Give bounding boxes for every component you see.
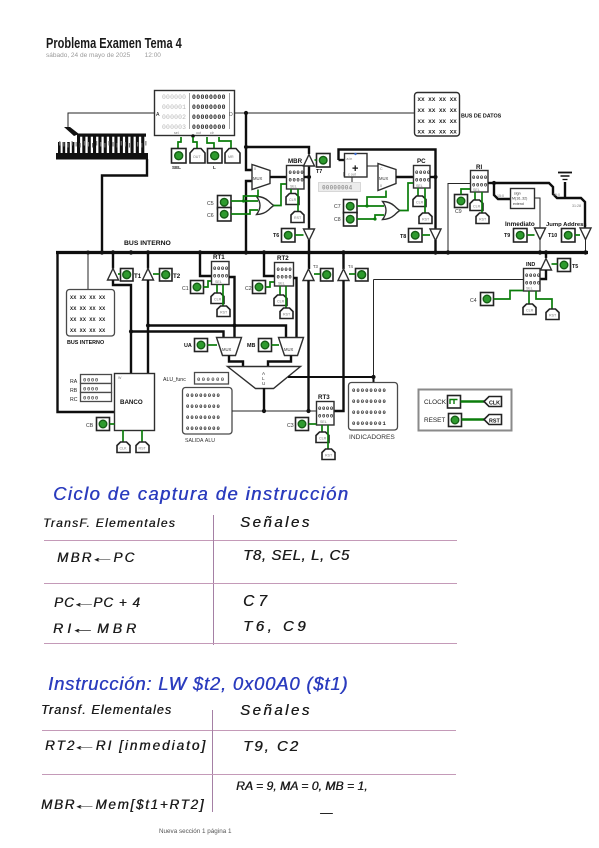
- svg-text:T8: T8: [400, 234, 406, 240]
- button UA: [184, 339, 217, 352]
- wire PC feedback top loop: [339, 150, 436, 229]
- svg-text:XX XX XX XX: XX XX XX XX: [418, 107, 458, 114]
- wire RT1 out to mux UA: [229, 277, 235, 337]
- svg-text:SEL: SEL: [416, 184, 423, 188]
- svg-text:SEL: SEL: [278, 282, 285, 286]
- table 1 divider: [213, 515, 214, 645]
- wire mux MB to alu: [268, 356, 291, 367]
- svg-text:CLR: CLR: [526, 309, 534, 313]
- wire C5 to or2: [231, 200, 258, 202]
- svg-text:C2: C2: [245, 286, 252, 292]
- date line: [46, 52, 161, 59]
- display BUS INTERNO: [67, 290, 115, 347]
- node T7 line: [244, 145, 248, 149]
- svg-text:SEL: SEL: [526, 287, 533, 291]
- svg-text:T5: T5: [572, 264, 578, 270]
- button C8: [334, 213, 357, 227]
- svg-text:BUS INTERNO: BUS INTERNO: [124, 240, 171, 247]
- svg-text:RST: RST: [220, 311, 228, 315]
- wire bus interno main: [56, 251, 588, 254]
- wire flags up to IND loop: [373, 280, 375, 378]
- node bus x=246: [244, 250, 248, 254]
- mux MB: [279, 338, 304, 356]
- svg-text:0000: 0000: [318, 413, 334, 420]
- wire splitter to bus interno: [102, 159, 147, 251]
- svg-text:0000: 0000: [472, 174, 488, 181]
- button L: [208, 149, 223, 171]
- table 1 header col2: [240, 514, 312, 531]
- svg-text:RT1: RT1: [213, 254, 225, 261]
- svg-text:0000: 0000: [415, 169, 431, 176]
- svg-text:00000001: 00000001: [352, 420, 387, 427]
- svg-text:UA: UA: [184, 343, 192, 349]
- button C6: [207, 208, 231, 222]
- pin RST of RT2: [280, 286, 293, 319]
- button T8: [400, 229, 430, 243]
- svg-text:a in: a in: [347, 157, 353, 161]
- wire cmux select: [367, 191, 386, 207]
- svg-text:RST: RST: [325, 454, 333, 458]
- wire memory data out to bus de datos: [235, 112, 414, 114]
- node T3 line end: [306, 409, 310, 413]
- pin RST of RT1: [217, 285, 230, 317]
- wire memory sel pin: [178, 137, 181, 148]
- svg-text:0: 0: [380, 184, 382, 188]
- button T2: [153, 269, 181, 282]
- svg-text:CLK: CLK: [120, 447, 128, 451]
- svg-text:000000: 000000: [162, 94, 186, 101]
- svg-text:RA: RA: [70, 379, 78, 385]
- row RT2 <- RI: [45, 738, 207, 753]
- wire memory address input: [68, 113, 154, 128]
- wire T6 to bus: [308, 240, 310, 251]
- svg-text:0000: 0000: [83, 377, 99, 384]
- svg-text:00000000: 00000000: [192, 124, 226, 131]
- button C0: [86, 418, 115, 431]
- wire bus to T1: [112, 252, 114, 269]
- pin CLR of IND: [523, 291, 536, 315]
- buffer T5: [541, 259, 552, 271]
- or gate U4 (C7/C8): [383, 202, 401, 220]
- svg-text:W: W: [118, 376, 122, 380]
- wire MBR out vertical: [308, 166, 310, 229]
- svg-text:XX XX XX XX: XX XX XX XX: [418, 129, 458, 136]
- svg-text:INDICADORES: INDICADORES: [349, 434, 395, 441]
- wire bus to T2: [147, 252, 149, 269]
- wire T2 out to banco: [147, 280, 149, 373]
- svg-text:ALU_func: ALU_func: [163, 377, 186, 383]
- splitter bus ripper: [56, 127, 148, 160]
- svg-text:CLK: CLK: [489, 401, 500, 407]
- svg-text:MUX: MUX: [379, 176, 389, 181]
- node memory data / MBR mux: [244, 111, 248, 115]
- table 2 header col2: [240, 702, 312, 719]
- wire mux UA to alu: [229, 356, 243, 367]
- wire T1 out to banco: [113, 280, 131, 373]
- svg-text:C5: C5: [207, 201, 214, 207]
- wire RI to jump concat (25:0): [494, 183, 585, 228]
- register RT2: [275, 255, 294, 286]
- handwritten section 2 title: [48, 673, 348, 695]
- node T1 out: [129, 329, 133, 333]
- svg-text:XX XX XX XX: XX XX XX XX: [418, 96, 458, 103]
- node bus x=88: [86, 251, 90, 255]
- wire or2 out to MBR load: [274, 184, 287, 206]
- wire T7 to memory data line: [246, 147, 309, 154]
- wire flags to IND: [374, 279, 524, 281]
- row MBR <- PC: [57, 550, 136, 565]
- display RB: [70, 384, 112, 395]
- wire C9 to RI: [461, 189, 470, 195]
- svg-text:MB: MB: [247, 343, 255, 349]
- svg-text:RST: RST: [294, 216, 302, 220]
- pin RST of RI: [476, 192, 489, 224]
- node bus x=148: [146, 250, 150, 254]
- probe OUT: [190, 149, 205, 164]
- mux UA: [217, 338, 242, 356]
- svg-text:CLR: CLR: [277, 300, 285, 304]
- button T9: [504, 229, 535, 243]
- svg-text:PC: PC: [417, 158, 426, 165]
- svg-text:RB: RB: [70, 388, 78, 394]
- wire T9 to bus: [539, 239, 541, 251]
- button C1: [182, 281, 211, 294]
- svg-text:0000: 0000: [83, 386, 99, 393]
- svg-text:00000004: 00000004: [322, 185, 353, 192]
- register PC: [414, 158, 431, 188]
- node bus x=200: [198, 250, 202, 254]
- wire operand A to mux UA: [131, 332, 224, 338]
- wire C7 to or4: [357, 205, 384, 207]
- display BUS DE DATOS: [415, 93, 502, 137]
- svg-text:0000: 0000: [525, 272, 541, 279]
- pin CLR of MBR: [286, 189, 299, 205]
- node bus x=546: [544, 250, 548, 254]
- svg-text:MR: MR: [228, 155, 234, 159]
- svg-text:SEL: SEL: [215, 280, 222, 284]
- node bus x=448: [446, 250, 450, 254]
- pin CLR of RT3: [316, 425, 329, 443]
- buffer T10: [580, 228, 591, 240]
- button C7: [334, 200, 357, 214]
- wire memory out pin: [193, 137, 197, 148]
- node PC out: [433, 175, 437, 179]
- svg-text:31:28: 31:28: [572, 204, 581, 208]
- wire bus interno to MBR mux in1: [246, 181, 252, 251]
- wire C6 to or2: [231, 210, 258, 214]
- ground: [558, 173, 572, 199]
- svg-text:C1: C1: [182, 286, 189, 292]
- svg-text:C9: C9: [455, 209, 462, 215]
- svg-text:out: out: [196, 131, 201, 135]
- button C2: [245, 281, 274, 294]
- svg-text:IND: IND: [526, 262, 535, 268]
- node alu out: [262, 409, 266, 413]
- button C9: [455, 195, 468, 216]
- svg-text:XX XX XX XX: XX XX XX XX: [70, 317, 106, 323]
- svg-text:C7: C7: [334, 204, 341, 210]
- svg-text:D: D: [229, 112, 233, 118]
- svg-text:RT3: RT3: [318, 394, 330, 401]
- svg-text:0000: 0000: [415, 177, 431, 184]
- svg-text:0000: 0000: [213, 273, 229, 280]
- svg-text:00000000: 00000000: [192, 104, 226, 111]
- wire RI to sign extend (15:0): [494, 183, 510, 199]
- node green C5: [242, 199, 245, 202]
- svg-text:BUS DE DATOS: BUS DE DATOS: [461, 114, 502, 120]
- svg-text:SEL: SEL: [320, 420, 327, 424]
- wire C8 to or4: [357, 215, 384, 219]
- node bus x=540: [538, 250, 542, 254]
- adder U3: [345, 153, 368, 177]
- svg-text:T2: T2: [173, 273, 181, 280]
- button T7: [315, 154, 331, 176]
- button T6: [273, 229, 304, 243]
- node bus x=343.5: [341, 250, 345, 254]
- buffer T1: [108, 269, 119, 281]
- svg-text:T3: T3: [313, 264, 319, 269]
- wire bus to T3: [308, 252, 310, 269]
- svg-text:0000: 0000: [277, 274, 293, 281]
- probe MBR pin: [225, 149, 240, 164]
- button T10: [548, 229, 580, 243]
- svg-text:RST: RST: [549, 314, 557, 318]
- svg-text:RST: RST: [479, 218, 487, 222]
- memory M1: [155, 91, 235, 138]
- display INDICADORES: [349, 383, 398, 442]
- svg-text:OUT: OUT: [193, 155, 201, 159]
- pin RST of banco: [136, 430, 149, 453]
- button MB: [247, 339, 279, 352]
- wire bus to display: [87, 252, 89, 289]
- wire T4 out down to RT3: [334, 281, 344, 412]
- wire MBR out: [304, 176, 309, 178]
- svg-text:RST: RST: [283, 313, 291, 317]
- svg-text:T9: T9: [504, 233, 510, 239]
- svg-text:15:0: 15:0: [497, 194, 504, 198]
- svg-text:0000: 0000: [525, 280, 541, 287]
- svg-text:BANCO: BANCO: [120, 399, 143, 406]
- svg-text:000003: 000003: [162, 124, 186, 131]
- mux MBR input: [252, 165, 270, 190]
- node green cmux sel: [365, 204, 368, 207]
- buffer T2: [143, 269, 154, 281]
- node bus x=131: [129, 250, 133, 254]
- wire T10 to bus: [585, 239, 587, 251]
- svg-text:CLR: CLR: [289, 198, 297, 202]
- wire operand B to mux MB: [148, 326, 286, 338]
- wire bus datos to MBR mux in0: [246, 113, 252, 170]
- clock reset panel: [419, 390, 512, 431]
- buffer T7: [304, 155, 315, 167]
- svg-text:0000: 0000: [318, 405, 334, 412]
- wire into adder a: [339, 159, 345, 161]
- svg-text:00000000: 00000000: [352, 398, 387, 405]
- svg-text:sign: sign: [514, 192, 521, 196]
- svg-text:C4: C4: [470, 298, 477, 304]
- svg-text:CLR: CLR: [416, 201, 424, 205]
- pin CLR of RT2: [274, 286, 287, 306]
- constant 00000004: [319, 172, 361, 192]
- display ALU_func: [195, 373, 229, 385]
- wire mux to MBR: [270, 176, 286, 178]
- svg-text:T7: T7: [316, 169, 322, 175]
- node MBR out: [307, 175, 311, 179]
- mux C (PC input): [378, 164, 396, 191]
- svg-text:extend: extend: [513, 202, 524, 206]
- buffer T6: [304, 229, 315, 241]
- wire T8 to bus: [434, 240, 436, 251]
- button T1: [118, 269, 142, 282]
- node crossing RT1 out: [232, 323, 236, 327]
- svg-text:000001: 000001: [162, 104, 186, 111]
- buffer T9: [535, 228, 546, 240]
- svg-text:CLR: CLR: [319, 437, 327, 441]
- row MBR <- Mem: [41, 797, 205, 812]
- display RC: [70, 393, 112, 404]
- button SEL: [172, 149, 187, 171]
- svg-text:U: U: [262, 381, 265, 386]
- or gate U2 (C5/C6): [257, 197, 275, 215]
- pin CLK of banco: [117, 430, 130, 453]
- svg-text:00000000: 00000000: [192, 114, 226, 121]
- svg-text:00000000: 00000000: [186, 403, 221, 410]
- wire bus to RI: [448, 184, 470, 252]
- table 2 divider: [212, 710, 213, 812]
- buffer T3: [303, 269, 314, 281]
- svg-text:CLOCK: CLOCK: [424, 399, 447, 406]
- wire T5 to IND out: [540, 270, 546, 279]
- node T2 out: [146, 323, 150, 327]
- node bus x=309: [307, 250, 311, 254]
- wire RT2 out to mux MB: [294, 278, 297, 337]
- wire alu out: [263, 388, 265, 411]
- svg-text:00000000: 00000000: [352, 409, 387, 416]
- wire bus left to banco: [58, 251, 115, 412]
- node RI out: [488, 182, 494, 184]
- node green C8: [373, 217, 376, 220]
- node bus x=435.5: [433, 250, 437, 254]
- table 2 rule 2: [42, 774, 456, 775]
- svg-text:RST: RST: [489, 419, 500, 425]
- svg-text:00000000: 00000000: [192, 94, 226, 101]
- handwritten section 1 title: [53, 483, 349, 505]
- svg-text:CLR: CLR: [214, 298, 222, 302]
- pin CLR of RI: [470, 192, 483, 211]
- svg-text:SEL: SEL: [172, 165, 181, 170]
- svg-text:MUX: MUX: [253, 176, 263, 181]
- page title: [46, 36, 182, 52]
- svg-text:XX XX XX XX: XX XX XX XX: [70, 328, 106, 334]
- svg-text:RESET: RESET: [424, 417, 445, 424]
- register MBR: [287, 158, 305, 189]
- sign extender U5: [511, 189, 535, 209]
- wire bus to T5: [545, 252, 547, 258]
- svg-text:RST: RST: [139, 447, 147, 451]
- pin CLR of RT1: [211, 285, 224, 304]
- svg-text:00000000: 00000000: [352, 387, 387, 394]
- svg-text:C: C: [380, 167, 383, 171]
- svg-text:0000: 0000: [277, 266, 293, 273]
- wire adder to cmux: [367, 165, 378, 167]
- pin RST of PC: [419, 188, 432, 224]
- alu U6: [228, 367, 301, 389]
- node bus x=113: [111, 250, 115, 254]
- button C4: [470, 291, 523, 306]
- svg-text:XX XX XX XX: XX XX XX XX: [70, 295, 106, 301]
- wire or4 to PC load: [400, 183, 414, 211]
- svg-text:XX XX XX XX: XX XX XX XX: [70, 306, 106, 312]
- wire bus to RT1: [200, 252, 211, 276]
- table 1 rule 3: [44, 643, 457, 644]
- svg-text:T10: T10: [548, 233, 557, 239]
- svg-text:C6: C6: [207, 213, 214, 219]
- row PC <- PC+4: [54, 595, 141, 610]
- svg-text:25:0: 25:0: [553, 193, 560, 197]
- row RI <- MBR: [53, 620, 140, 636]
- svg-text:L: L: [213, 165, 216, 170]
- table 1 rule 2: [44, 583, 457, 584]
- svg-text:00000000: 00000000: [186, 414, 221, 421]
- svg-text:0: 0: [254, 167, 256, 171]
- svg-text:Jump Address: Jump Address: [546, 222, 587, 228]
- svg-text:0000: 0000: [289, 169, 305, 176]
- svg-text:SALIDA ALU: SALIDA ALU: [185, 438, 215, 444]
- svg-text:A: A: [156, 112, 160, 118]
- footer: [159, 828, 231, 835]
- svg-text:RST: RST: [422, 218, 430, 222]
- table 1 rule 1: [44, 540, 457, 541]
- svg-text:MUX: MUX: [284, 347, 294, 352]
- svg-text:M(16..32): M(16..32): [512, 197, 527, 201]
- svg-text:0000: 0000: [289, 177, 305, 184]
- wire bus to T4: [342, 252, 344, 269]
- display RA: [70, 375, 112, 386]
- wire sign extend to T9: [535, 198, 541, 228]
- node bus x=102: [100, 250, 104, 254]
- wire alu result line: [232, 410, 316, 412]
- svg-text:T1: T1: [134, 273, 142, 280]
- svg-text:C8: C8: [334, 217, 341, 223]
- buffer T8: [430, 229, 441, 241]
- wire cmux to PC: [396, 176, 413, 178]
- svg-text:000002: 000002: [162, 114, 186, 121]
- button T3: [314, 269, 333, 282]
- register IND: [524, 262, 541, 291]
- node bus x=264: [262, 250, 266, 254]
- wire bus to RT2: [264, 252, 274, 276]
- button T4: [349, 269, 368, 282]
- svg-text:T4: T4: [348, 264, 354, 269]
- svg-text:MBR: MBR: [288, 158, 303, 165]
- svg-text:XX XX XX XX: XX XX XX XX: [418, 118, 458, 125]
- wire memory l pin: [207, 137, 214, 148]
- svg-text:00000000: 00000000: [186, 392, 221, 399]
- svg-text:RC: RC: [70, 397, 78, 403]
- svg-text:T6: T6: [273, 233, 279, 239]
- table 2 header col1: [41, 703, 172, 717]
- svg-text:SEL: SEL: [290, 185, 297, 189]
- wire alu flags out: [288, 377, 374, 382]
- table 2 rule 1: [42, 730, 456, 731]
- register RT1: [212, 254, 230, 285]
- button C5: [207, 196, 231, 210]
- svg-text:000000: 000000: [197, 376, 226, 383]
- pin RST of IND: [536, 291, 559, 320]
- wire mux select: [244, 190, 259, 201]
- node bus x=585.5: [583, 250, 587, 254]
- button T5: [552, 259, 579, 272]
